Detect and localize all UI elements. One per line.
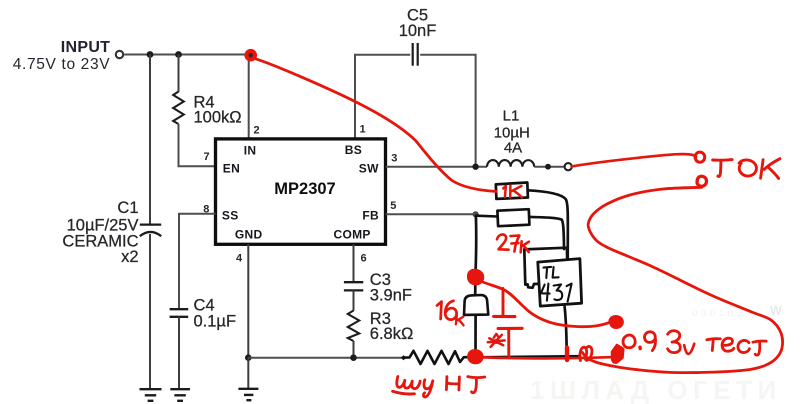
wire end marker — [401, 355, 407, 360]
wire GND to ground — [247, 358, 249, 389]
junction output node — [545, 164, 551, 170]
wire C4 to ground — [178, 317, 180, 389]
ground C4 — [170, 389, 190, 401]
svg-text:6: 6 — [361, 253, 367, 265]
wire FB node to 27k — [476, 214, 498, 217]
red cross mark — [488, 334, 505, 347]
red label TOK — [713, 159, 780, 179]
transistor TL431 back box — [524, 248, 567, 288]
resistor 27k hand-drawn box — [497, 209, 529, 226]
pin stub COMP — [353, 244, 355, 282]
pin stub BS and C5 left leg — [355, 55, 410, 139]
junction SW C5 — [472, 164, 478, 170]
red tick mark — [565, 348, 569, 360]
svg-text:2: 2 — [254, 125, 260, 137]
bottom wire hand extension — [470, 356, 580, 357]
svg-text:4A: 4A — [504, 139, 522, 156]
junction C1 branch — [147, 51, 154, 58]
svg-text:10nF: 10nF — [399, 22, 437, 40]
svg-text:IN: IN — [244, 143, 257, 157]
wire red blob to 16k — [474, 284, 477, 296]
wire FB node down to red blob — [474, 217, 477, 271]
wire C3 to R3 — [353, 290, 355, 310]
svg-text:W: W — [770, 304, 782, 318]
red test point scribble circle — [610, 316, 623, 327]
pin stub GND — [247, 244, 249, 357]
svg-text:FB: FB — [362, 209, 379, 223]
wire 1K to TL431 — [528, 190, 568, 258]
svg-text:1ШЛАД ОГЕТИ: 1ШЛАД ОГЕТИ — [530, 375, 782, 404]
red label 16k — [437, 301, 464, 326]
wire R4 to EN pin — [179, 124, 216, 166]
svg-text:7: 7 — [204, 151, 210, 163]
input terminal — [116, 51, 123, 58]
red wire IN node to 1K — [253, 58, 496, 191]
pin stub FB — [386, 213, 476, 215]
red label shunt — [393, 377, 485, 397]
red wire blob to test point — [482, 282, 609, 327]
svg-text:0 3 0 1 0 3: 0 3 0 1 0 3 — [692, 308, 742, 319]
bottom wire GND rail — [248, 357, 403, 359]
transistor TL431 front box — [538, 259, 582, 307]
shunt resistor hand-drawn zigzag — [404, 351, 470, 364]
wire 16k to bottom junction — [474, 315, 477, 357]
red node blob bottom junction — [468, 350, 482, 363]
svg-text:L1: L1 — [503, 108, 520, 125]
resistor 16k hand-drawn box — [464, 295, 488, 315]
junction R3 bottom — [350, 354, 357, 361]
svg-text:6.8kΩ: 6.8kΩ — [370, 325, 414, 343]
red label 0.93v test — [623, 331, 766, 355]
svg-text:5: 5 — [390, 200, 396, 212]
red pentagon marker — [612, 345, 624, 363]
resistor 1K hand-drawn box — [496, 183, 528, 199]
svg-text:MP2307: MP2307 — [274, 180, 335, 198]
svg-text:GND: GND — [235, 228, 263, 242]
ground C1 — [140, 389, 162, 401]
wire C1 lower — [149, 234, 151, 389]
svg-text:100kΩ: 100kΩ — [194, 108, 242, 126]
label TL — [544, 267, 559, 278]
red capacitor hand-drawn — [502, 289, 505, 316]
wire R4 upper — [178, 55, 180, 93]
wire L1 to output terminal — [534, 166, 564, 168]
svg-text:EN: EN — [223, 161, 240, 175]
junction GND node — [245, 354, 252, 361]
junction FB node — [473, 211, 479, 217]
pin stub SS to C4 — [179, 214, 216, 309]
junction R4 branch — [175, 51, 182, 58]
red terminal TOK lower — [697, 176, 706, 186]
wire 27k to TL431 — [529, 217, 564, 249]
svg-text:BS: BS — [345, 143, 362, 157]
red output wire to TOK terminal — [572, 154, 695, 166]
ground GND pin — [238, 389, 258, 400]
svg-text:C1: C1 — [117, 199, 138, 217]
wire TL431 to bottom rail — [565, 307, 567, 357]
red node marker on IN rail — [244, 49, 257, 62]
wire input rail — [124, 54, 250, 56]
op-amp U1 MP2307 body — [216, 139, 386, 244]
label 431 — [541, 284, 572, 302]
svg-text:COMP: COMP — [334, 228, 371, 242]
svg-text:x2: x2 — [121, 248, 138, 266]
svg-text:0.1µF: 0.1µF — [194, 312, 237, 330]
capacitor C4 — [170, 309, 189, 317]
svg-text:4.75V to 23V: 4.75V to 23V — [13, 56, 110, 73]
svg-text:SW: SW — [359, 161, 379, 175]
red node blob FB divider — [468, 270, 483, 284]
wire R3 to bottom rail — [353, 341, 355, 358]
svg-text:1: 1 — [360, 124, 366, 136]
inductor L1 — [487, 160, 534, 167]
svg-text:SS: SS — [222, 209, 239, 223]
pin stub IN — [248, 55, 250, 140]
svg-text:3: 3 — [391, 153, 397, 165]
red measurement loop — [583, 187, 783, 372]
capacitor C5 — [413, 43, 418, 66]
svg-text:3.9nF: 3.9nF — [370, 286, 412, 304]
capacitor C3 — [344, 282, 363, 290]
svg-text:4: 4 — [236, 253, 243, 265]
wire C1 upper — [149, 55, 151, 225]
wire SW to L1 — [386, 166, 487, 168]
capacitor C1 — [140, 225, 161, 237]
resistor R4 — [173, 92, 184, 125]
output terminal — [565, 163, 572, 170]
red bow mark — [580, 346, 592, 360]
red wire along bottom rail — [483, 357, 611, 358]
red label 1K — [503, 186, 522, 198]
resistor R3 — [348, 311, 359, 342]
red label 27k — [497, 234, 529, 252]
red terminal TOK upper — [695, 152, 705, 162]
svg-text:INPUT: INPUT — [61, 39, 111, 56]
wire C5 right leg — [420, 55, 475, 167]
